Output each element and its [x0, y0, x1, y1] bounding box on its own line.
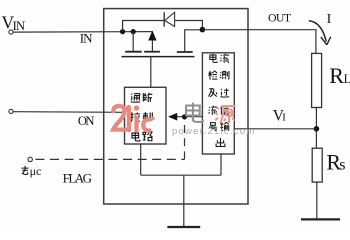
watermark dot after c: [152, 117, 155, 120]
wire diode cathode to OUT rail: [175, 21, 203, 30]
ground symbol (center): [167, 226, 200, 228]
label 及过 row3: [208, 89, 216, 97]
label 检测 row2: [208, 71, 217, 80]
control box (on/off control circuit): [125, 87, 167, 144]
sense box (current detect / overcurrent output): [202, 53, 234, 154]
wire IN net (VIN to switch): [13, 31, 152, 33]
label 去μc: [21, 166, 28, 175]
node junction dot D (flag tap): [182, 114, 187, 119]
overcurrent feedback arrow into control box: [169, 113, 177, 120]
MOSFET Q1 body arrow (substrate): [149, 31, 156, 40]
label 出 row6: [216, 138, 225, 146]
svg-text:I: I: [282, 113, 286, 124]
MOSFET Q1 electrode bar 1: [125, 51, 142, 53]
node junction dot VI: [314, 126, 320, 132]
current direction arc arrow I: [309, 21, 327, 42]
watermark 源 (salmon): [215, 106, 235, 123]
wire sense box to arrow: [177, 116, 203, 118]
wire Q2 drain to OUT rail: [185, 30, 203, 52]
svg-text:R: R: [329, 63, 344, 88]
wire RL to VI node: [315, 108, 317, 149]
wire FLAG dashed horizontal: [32, 158, 184, 160]
terminal IN (input pin circle): [9, 30, 13, 34]
watermark 电 (gray): [186, 102, 203, 121]
node junction dot A (diode tap): [120, 29, 125, 34]
terminal FLAG (to uC circle): [28, 157, 32, 161]
wire internal ground bus: [141, 174, 221, 176]
diode D1 cathode bar: [163, 12, 165, 26]
label 号输 row5: [209, 123, 217, 131]
wire left FET drain stub: [132, 32, 134, 52]
IC block outline U1: [104, 9, 248, 204]
wire diode anode stub up: [123, 21, 164, 32]
ground symbol (right): [301, 218, 340, 220]
wire VI sense line: [234, 128, 316, 130]
svg-text:power.21ic.com: power.21ic.com: [172, 126, 256, 137]
diode D1 triangle: [165, 12, 175, 26]
svg-text:L: L: [344, 72, 350, 86]
wire ground stem: [183, 175, 185, 226]
current arrow head: [321, 37, 331, 45]
wire sense box to internal ground bus: [220, 154, 222, 175]
svg-text:IN: IN: [80, 31, 93, 46]
label 流信 row4: [208, 106, 217, 115]
node junction dot B (left FET drain tap): [131, 29, 136, 34]
watermark i dot: [134, 105, 139, 110]
svg-text:IN: IN: [13, 19, 25, 33]
svg-text:ON: ON: [78, 114, 94, 128]
svg-text:OUT: OUT: [268, 10, 292, 24]
wire body arrow to source bar: [151, 40, 153, 51]
label 控制 row: [130, 112, 139, 121]
MOSFET gate bar: [122, 56, 195, 58]
wire gate tap to control box: [150, 57, 152, 88]
wire OUT rail: [202, 30, 316, 54]
svg-text:μc: μc: [30, 164, 42, 178]
wire RS to ground: [316, 182, 318, 218]
watermark 21ic logo: [113, 106, 149, 131]
label 电路 row: [132, 132, 140, 141]
wire ON net: [13, 111, 124, 114]
resistor RS: [312, 148, 322, 182]
label 电流 row1: [210, 54, 217, 63]
MOSFET Q1 electrode bar 2: [144, 51, 160, 53]
terminal ON (enable pin circle): [9, 109, 13, 113]
wire FLAG dashed vertical: [184, 118, 186, 159]
MOSFET Q2 electrode bar 3: [177, 51, 193, 53]
node junction dot C (OUT rail): [200, 27, 206, 33]
resistor RL: [312, 53, 322, 107]
label 通断 row: [131, 94, 140, 103]
svg-text:FLAG: FLAG: [63, 171, 92, 186]
wire control box to internal ground bus: [140, 144, 142, 175]
svg-text:I: I: [327, 12, 332, 27]
svg-text:s: s: [339, 157, 345, 174]
